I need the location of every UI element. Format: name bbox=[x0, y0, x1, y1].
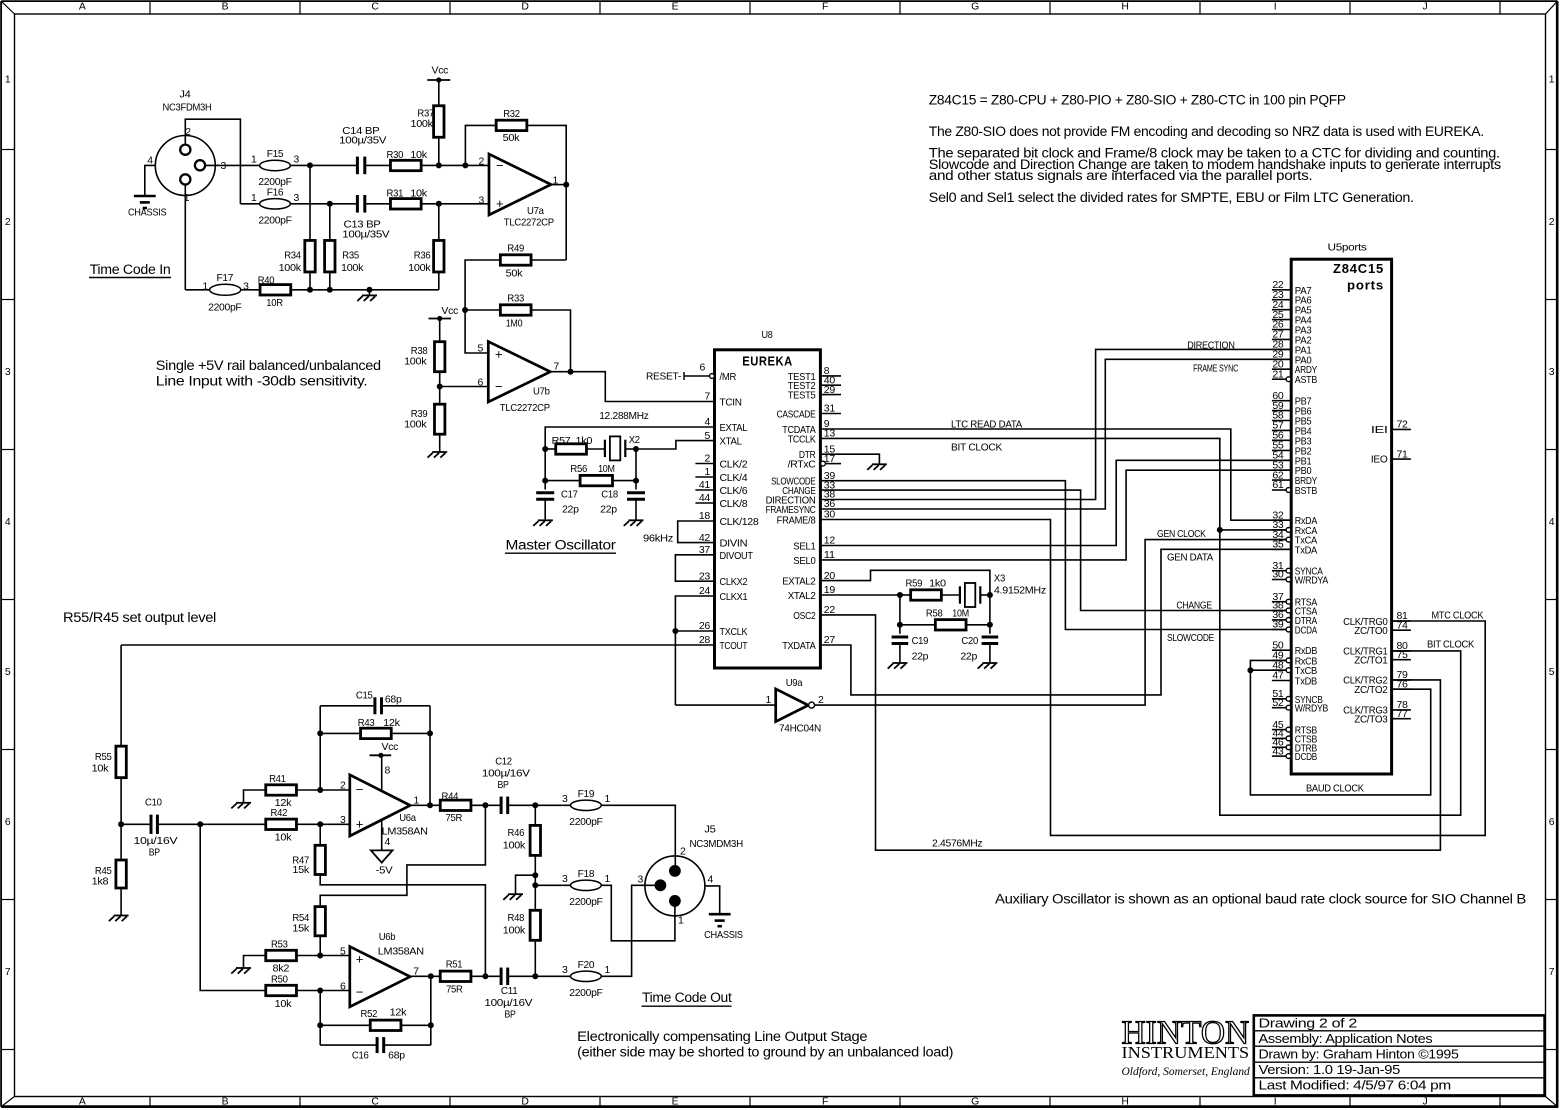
svg-text:1: 1 bbox=[203, 281, 209, 292]
svg-text:/RTxC: /RTxC bbox=[788, 460, 817, 471]
svg-text:+: + bbox=[356, 952, 363, 967]
bubble U9a output bbox=[809, 702, 815, 708]
bubble on /RTxC pin 17 bbox=[821, 461, 826, 466]
wire R32 to U7a output bbox=[527, 125, 566, 184]
EUREKA left pin stubs CLK group bbox=[695, 463, 714, 465]
svg-text:F20: F20 bbox=[578, 960, 595, 971]
wire C17 stem bbox=[544, 481, 546, 490]
svg-text:FRAME/8: FRAME/8 bbox=[777, 516, 816, 527]
wire J5 pin4 to chassis bbox=[705, 886, 720, 914]
wire J4 pin1 down to F17 bbox=[184, 185, 186, 290]
wire U6b output to R51 bbox=[410, 975, 440, 977]
resistor R50 10k bbox=[266, 985, 297, 995]
node dot R35 top on F16 line bbox=[327, 201, 333, 207]
crystal X3 4.9152MHz bbox=[965, 583, 975, 607]
wire SLOWCODE to DCDA bbox=[820, 481, 1286, 630]
svg-text:R30: R30 bbox=[387, 150, 404, 161]
svg-text:2: 2 bbox=[340, 781, 346, 792]
svg-text:X2: X2 bbox=[629, 435, 641, 446]
svg-text:100µ/16V: 100µ/16V bbox=[482, 768, 530, 779]
svg-text:10k: 10k bbox=[275, 833, 293, 844]
resistor R56 10M bbox=[580, 475, 612, 485]
wire R34 bottom bbox=[309, 272, 311, 290]
svg-text:50k: 50k bbox=[503, 133, 521, 144]
svg-text:TLC2272CP: TLC2272CP bbox=[500, 403, 550, 414]
svg-text:75R: 75R bbox=[446, 813, 463, 824]
svg-text:R45: R45 bbox=[95, 866, 112, 877]
svg-text:100k: 100k bbox=[279, 263, 302, 274]
wire C18 stem bbox=[635, 481, 637, 490]
svg-text:D: D bbox=[521, 1096, 528, 1107]
svg-text:+: + bbox=[496, 196, 503, 211]
wire FRAME/8 to CLK/TRG0 MTC CLOCK bbox=[820, 520, 1485, 836]
svg-text:5: 5 bbox=[705, 431, 711, 442]
wire R54 cross-feed from C12 node bbox=[320, 805, 485, 906]
svg-text:61: 61 bbox=[1272, 480, 1284, 491]
svg-text:R49: R49 bbox=[507, 244, 524, 255]
chassis ground at J5 bbox=[709, 913, 731, 916]
node dot ground tap bbox=[367, 287, 373, 293]
svg-text:2: 2 bbox=[479, 157, 485, 168]
svg-text:R34: R34 bbox=[284, 250, 301, 261]
svg-text:6: 6 bbox=[700, 363, 706, 374]
svg-text:R55/R45 set output level: R55/R45 set output level bbox=[63, 610, 216, 625]
svg-text:22p: 22p bbox=[960, 652, 977, 663]
wire DTR to ground bbox=[820, 454, 879, 464]
Vcc symbol above R37 bbox=[427, 79, 450, 81]
Z84C15 left pins bbox=[1272, 289, 1291, 291]
svg-text:DIVOUT: DIVOUT bbox=[720, 551, 754, 562]
resistor R43 12k bbox=[361, 728, 392, 738]
signal ground below R39 bbox=[432, 451, 447, 453]
svg-text:+: + bbox=[495, 347, 502, 362]
wire CHANGE to CTSA bbox=[820, 490, 1286, 610]
svg-text:BIT CLOCK: BIT CLOCK bbox=[951, 443, 1002, 454]
resistor R52 12k bbox=[370, 1020, 401, 1030]
wire TxCB branch bbox=[1250, 669, 1286, 671]
svg-text:BP: BP bbox=[505, 1009, 516, 1020]
svg-text:SEL0: SEL0 bbox=[793, 556, 816, 567]
capacitor C18 22p bbox=[627, 491, 645, 494]
svg-text:Time Code In: Time Code In bbox=[90, 262, 171, 277]
signal ground below C17 bbox=[538, 519, 553, 521]
svg-text:1: 1 bbox=[766, 695, 772, 706]
node dot feedback on minus input bbox=[317, 787, 323, 793]
wire R47 top bbox=[319, 824, 321, 845]
svg-text:2200pF: 2200pF bbox=[208, 303, 241, 314]
capacitor C10 10u/16V BP bbox=[150, 815, 153, 834]
svg-text:R57: R57 bbox=[552, 436, 571, 447]
svg-text:21: 21 bbox=[1272, 369, 1284, 380]
capacitor C17 22p bbox=[536, 491, 554, 494]
resistor R37 100k bbox=[434, 106, 444, 138]
signal ground below C18 bbox=[629, 519, 644, 521]
svg-text:10R: 10R bbox=[266, 298, 283, 309]
svg-text:77: 77 bbox=[1397, 709, 1409, 720]
svg-text:LTC READ DATA: LTC READ DATA bbox=[951, 419, 1022, 430]
Z84C15 right pin IEI bbox=[1392, 428, 1411, 430]
svg-text:100k: 100k bbox=[503, 840, 526, 851]
svg-text:100k: 100k bbox=[411, 119, 434, 130]
wire GEN DATA TXDATA to TxDA bbox=[820, 549, 1291, 695]
svg-text:R41: R41 bbox=[269, 774, 286, 785]
wire R35 top bbox=[329, 204, 331, 241]
svg-text:J: J bbox=[1423, 1096, 1428, 1107]
svg-text:R31: R31 bbox=[387, 189, 404, 200]
chassis ground at J4 bbox=[134, 195, 156, 198]
node dot TxCB junction bbox=[1247, 667, 1253, 673]
svg-text:Sel0 and Sel1 select the divid: Sel0 and Sel1 select the divided rates f… bbox=[929, 190, 1414, 205]
wire XTAL jog bbox=[636, 441, 715, 449]
wire C19 stem bbox=[899, 625, 901, 634]
svg-text:CASCADE: CASCADE bbox=[777, 410, 816, 421]
resistor R48 100k bbox=[530, 910, 540, 940]
svg-text:74: 74 bbox=[1397, 620, 1409, 631]
wire R30 to U7a inverting input bbox=[421, 164, 489, 166]
svg-text:EUREKA: EUREKA bbox=[742, 355, 793, 369]
svg-text:C15: C15 bbox=[356, 690, 373, 701]
wire R42 to U6a plus bbox=[296, 823, 350, 825]
svg-text:Z84C15: Z84C15 bbox=[1333, 261, 1384, 276]
svg-text:3: 3 bbox=[1549, 367, 1555, 378]
Z84C15 right CTC pins bbox=[1392, 620, 1411, 622]
svg-text:Vcc: Vcc bbox=[432, 66, 449, 77]
svg-text:10k: 10k bbox=[410, 189, 428, 200]
resistor R55 10k bbox=[116, 746, 126, 778]
svg-text:8k2: 8k2 bbox=[273, 964, 290, 975]
svg-text:/MR: /MR bbox=[720, 372, 737, 383]
svg-text:12k: 12k bbox=[275, 798, 293, 809]
svg-text:3: 3 bbox=[294, 193, 300, 204]
op-amp U7b TLC2272CP bbox=[488, 342, 550, 403]
filter F20 2200pF bbox=[571, 971, 602, 981]
svg-text:68p: 68p bbox=[385, 694, 402, 705]
svg-text:C19: C19 bbox=[912, 636, 929, 647]
node dot U7a output bbox=[563, 182, 569, 188]
svg-text:C17: C17 bbox=[561, 489, 578, 500]
IC U5 Z84C15 ports box bbox=[1291, 259, 1391, 774]
svg-text:R38: R38 bbox=[411, 346, 428, 357]
svg-text:C18: C18 bbox=[601, 489, 618, 500]
svg-text:J5: J5 bbox=[704, 825, 716, 836]
svg-text:BIT CLOCK: BIT CLOCK bbox=[1427, 639, 1474, 650]
wire C16 left lead bbox=[320, 1044, 377, 1046]
svg-text:R54: R54 bbox=[292, 913, 309, 924]
resistor R46 100k bbox=[530, 825, 540, 855]
wire C16 right lead bbox=[384, 1044, 431, 1046]
svg-text:Time Code Out: Time Code Out bbox=[642, 990, 732, 1005]
svg-text:R59: R59 bbox=[906, 578, 923, 589]
svg-text:4.9152MHz: 4.9152MHz bbox=[994, 586, 1046, 597]
svg-text:U6a: U6a bbox=[399, 813, 416, 824]
capacitor C12 100u/16V BP bbox=[500, 797, 503, 815]
connector J4 XLR bbox=[155, 136, 215, 196]
title block box bbox=[1254, 1015, 1545, 1095]
node dot R46 ground tap bbox=[532, 872, 538, 878]
wire BIT CLOCK TCCLK to RxCA and CLK/TRG1 bbox=[820, 438, 1460, 815]
resistor R30 10k bbox=[390, 160, 421, 170]
wire U9a input bbox=[675, 704, 775, 706]
node dot BIT CLOCK RxCA branch bbox=[1217, 527, 1223, 533]
svg-text:The Z80-SIO does not provide F: The Z80-SIO does not provide FM encoding… bbox=[929, 124, 1484, 139]
node dot R58 right bbox=[987, 622, 993, 628]
wire C10 node down to R50 bbox=[200, 824, 266, 990]
svg-text:R44: R44 bbox=[442, 792, 459, 803]
wire /RTxC stub bbox=[826, 463, 841, 465]
node dot R37 bottom bbox=[436, 162, 442, 168]
wire R53 ground leg bbox=[244, 956, 266, 969]
wire X2 to right node bbox=[625, 448, 636, 450]
svg-text:74HC04N: 74HC04N bbox=[779, 724, 821, 735]
wire R50 to U6b minus bbox=[296, 990, 350, 992]
svg-text:FRAMESYNC: FRAMESYNC bbox=[766, 505, 817, 516]
svg-text:U5ports: U5ports bbox=[1328, 243, 1367, 254]
wire EXTAL to oscillator bbox=[545, 427, 714, 449]
wire F18 to J5 pin1 bbox=[601, 885, 675, 941]
wire R48 bottom bbox=[534, 940, 536, 976]
svg-text:F19: F19 bbox=[578, 789, 595, 800]
svg-text:2200pF: 2200pF bbox=[569, 988, 602, 999]
op-amp U6b LM358AN bbox=[350, 947, 410, 1007]
svg-text:100k: 100k bbox=[341, 263, 364, 274]
svg-text:EXTAL2: EXTAL2 bbox=[782, 577, 816, 588]
wire C20 to ground bbox=[989, 644, 991, 664]
svg-text:100k: 100k bbox=[404, 420, 427, 431]
wire feedback right vertical bbox=[429, 706, 431, 806]
wire R58 leads bbox=[900, 624, 936, 626]
resistor R41 12k bbox=[266, 785, 297, 795]
svg-text:5: 5 bbox=[1549, 667, 1555, 678]
wire ground branch at R46 bbox=[516, 875, 536, 894]
svg-text:DIVIN: DIVIN bbox=[720, 539, 748, 550]
svg-text:TCCLK: TCCLK bbox=[788, 434, 816, 445]
svg-text:3: 3 bbox=[562, 874, 568, 885]
svg-text:Drawing 2 of 2: Drawing 2 of 2 bbox=[1259, 1015, 1357, 1030]
wire U6b feedback left vertical bbox=[319, 991, 321, 1046]
svg-text:3: 3 bbox=[5, 367, 11, 378]
wire F20 to J5 pin3 bbox=[601, 885, 655, 976]
svg-text:FRAME SYNC: FRAME SYNC bbox=[1193, 363, 1239, 374]
svg-text:Last Modified: 4/5/97 6:04 pm: Last Modified: 4/5/97 6:04 pm bbox=[1259, 1078, 1451, 1093]
crystal X2 12.288MHz bbox=[610, 436, 620, 460]
svg-text:100k: 100k bbox=[408, 263, 431, 274]
signal ground below R45 bbox=[114, 915, 129, 917]
resistor R36 100k bbox=[434, 240, 444, 272]
svg-text:39: 39 bbox=[1272, 620, 1284, 631]
wire U7a output bbox=[551, 184, 566, 186]
svg-text:22p: 22p bbox=[562, 505, 579, 516]
svg-text:3: 3 bbox=[221, 161, 227, 172]
resistor R45 1k8 bbox=[116, 860, 126, 888]
svg-text:R48: R48 bbox=[508, 913, 525, 924]
wire RxCA branch bbox=[1220, 529, 1286, 531]
wire R52 leads bbox=[320, 1024, 370, 1026]
wire F17 to R40 bbox=[241, 289, 260, 291]
svg-text:SLOWCODE: SLOWCODE bbox=[1167, 633, 1214, 644]
resistor R57 1k0 bbox=[556, 444, 587, 454]
svg-text:CLK/128: CLK/128 bbox=[720, 517, 759, 528]
svg-text:U7a: U7a bbox=[527, 206, 544, 217]
op-amp U7a TLC2272CP bbox=[489, 154, 551, 215]
svg-text:A: A bbox=[79, 2, 86, 13]
node dot R34 bottom bbox=[307, 287, 313, 293]
wire U6a output to R44 bbox=[410, 804, 440, 806]
svg-text:MTC CLOCK: MTC CLOCK bbox=[1432, 610, 1484, 621]
node dot R56 left bbox=[542, 478, 548, 484]
filter F19 2200pF bbox=[571, 800, 602, 810]
svg-text:1: 1 bbox=[678, 916, 684, 927]
svg-text:12.288MHz: 12.288MHz bbox=[599, 411, 649, 422]
svg-text:Auxiliary Oscillator is shown: Auxiliary Oscillator is shown as an opti… bbox=[995, 892, 1526, 907]
svg-text:G: G bbox=[971, 1096, 979, 1107]
signal ground at R41 bbox=[236, 802, 251, 804]
svg-text:52: 52 bbox=[1272, 698, 1284, 709]
wire ground stub bbox=[369, 290, 371, 296]
svg-text:J: J bbox=[1423, 2, 1428, 13]
drawing border frame bbox=[1, 0, 1557, 2]
wire RESET to /MR bbox=[684, 375, 709, 377]
wire C17 to ground bbox=[544, 499, 546, 520]
svg-text:ZC/TO0: ZC/TO0 bbox=[1354, 626, 1388, 637]
Vcc symbol for R38 divider bbox=[429, 318, 452, 320]
svg-text:10k: 10k bbox=[275, 999, 293, 1010]
resistor R34 100k bbox=[305, 240, 315, 272]
svg-text:E: E bbox=[672, 1096, 679, 1107]
svg-text:U7b: U7b bbox=[533, 387, 550, 398]
wire BAUD CLOCK loop RxCB TxCB to ZC/TO2 bbox=[1250, 660, 1430, 795]
resistor R51 75R bbox=[440, 971, 471, 981]
wire R44 to C12 bbox=[471, 804, 501, 806]
wire U7b output to EUREKA TCIN bbox=[550, 372, 714, 402]
resistor R58 10M bbox=[935, 620, 966, 630]
svg-text:96kHz: 96kHz bbox=[643, 533, 673, 544]
svg-text:R40: R40 bbox=[258, 276, 275, 287]
node dot R47 top junction bbox=[317, 821, 323, 827]
svg-text:R37: R37 bbox=[417, 109, 434, 120]
svg-text:LM358AN: LM358AN bbox=[378, 947, 424, 958]
svg-text:NC3MDM3H: NC3MDM3H bbox=[690, 839, 743, 850]
svg-text:B: B bbox=[222, 2, 229, 13]
svg-text:TLC2272CP: TLC2272CP bbox=[504, 218, 554, 229]
svg-text:100k: 100k bbox=[404, 357, 427, 368]
svg-text:R46: R46 bbox=[508, 828, 525, 839]
svg-text:R52: R52 bbox=[361, 1009, 378, 1020]
svg-text:1: 1 bbox=[605, 794, 611, 805]
svg-text:F17: F17 bbox=[217, 273, 234, 284]
resistor R39 100k bbox=[435, 404, 445, 434]
svg-text:4: 4 bbox=[385, 837, 391, 848]
wire SEL0 to PB0 bbox=[820, 470, 1291, 560]
capacitor C19 22p bbox=[892, 635, 909, 638]
svg-text:U6b: U6b bbox=[379, 932, 396, 943]
node dot F18 node bbox=[532, 882, 538, 888]
wire R47 bottom cross-feed to C11 node bbox=[320, 875, 485, 976]
capacitor C11 100u/16V BP bbox=[500, 968, 503, 986]
svg-text:7: 7 bbox=[554, 362, 560, 373]
svg-text:J4: J4 bbox=[179, 90, 191, 101]
svg-text:10µ/16V: 10µ/16V bbox=[134, 836, 178, 847]
svg-text:RESET-: RESET- bbox=[646, 372, 681, 383]
resistor R54 15k bbox=[315, 907, 325, 936]
wire U7a output down to R49 bbox=[565, 185, 567, 260]
signal ground below C19 bbox=[892, 662, 907, 664]
node dot TXCLK bbox=[672, 628, 678, 634]
svg-text:1k8: 1k8 bbox=[92, 877, 109, 888]
svg-text:C12: C12 bbox=[495, 757, 512, 768]
bubble on /MR pin 6 bbox=[710, 374, 715, 379]
svg-text:BAUD CLOCK: BAUD CLOCK bbox=[1306, 784, 1364, 795]
svg-text:G: G bbox=[971, 2, 979, 13]
svg-text:W/RDYA: W/RDYA bbox=[1295, 576, 1329, 587]
node dot R43 left bbox=[317, 730, 323, 736]
svg-text:ports: ports bbox=[1347, 278, 1384, 293]
resistor R31 10k bbox=[390, 199, 421, 209]
svg-text:7: 7 bbox=[705, 392, 711, 403]
node dot U6b output bbox=[428, 973, 434, 979]
svg-text:DIRECTION: DIRECTION bbox=[1187, 340, 1234, 351]
svg-text:R33: R33 bbox=[507, 294, 524, 305]
wire R39 to ground bbox=[439, 434, 441, 452]
svg-text:U9a: U9a bbox=[786, 678, 803, 689]
svg-text:Assembly: Application Notes: Assembly: Application Notes bbox=[1259, 1031, 1434, 1046]
signal ground at input rail bbox=[362, 294, 377, 296]
svg-text:W/RDYB: W/RDYB bbox=[1295, 704, 1329, 715]
wire X3 right node down bbox=[989, 595, 991, 625]
node dot after R51 bbox=[482, 973, 488, 979]
svg-text:CLK/2: CLK/2 bbox=[720, 460, 748, 471]
node dot U7b output bbox=[568, 369, 574, 375]
svg-text:10k: 10k bbox=[92, 763, 110, 774]
svg-text:DCDA: DCDA bbox=[1295, 626, 1317, 637]
svg-text:2: 2 bbox=[1549, 217, 1555, 228]
wire R36 top bbox=[438, 204, 440, 241]
svg-text:15k: 15k bbox=[292, 865, 310, 876]
svg-text:6: 6 bbox=[340, 982, 346, 993]
wire R55 node to C10 bbox=[121, 823, 151, 825]
svg-text:2.4576MHz: 2.4576MHz bbox=[932, 839, 982, 850]
svg-text:CLK/6: CLK/6 bbox=[720, 486, 748, 497]
node dot R52 left bbox=[317, 1022, 323, 1028]
svg-text:1: 1 bbox=[5, 74, 11, 85]
svg-text:2200pF: 2200pF bbox=[569, 897, 602, 908]
node dot R54 bottom junction bbox=[317, 953, 323, 959]
svg-text:6: 6 bbox=[5, 817, 11, 828]
svg-text:30: 30 bbox=[1272, 570, 1284, 581]
svg-text:CHANGE: CHANGE bbox=[1176, 601, 1212, 612]
svg-text:R51: R51 bbox=[446, 959, 463, 970]
svg-text:CHASSIS: CHASSIS bbox=[704, 930, 743, 941]
wire C15 right lead bbox=[382, 705, 431, 707]
svg-text:22p: 22p bbox=[912, 652, 929, 663]
svg-text:Master Oscillator: Master Oscillator bbox=[506, 538, 617, 553]
signal ground at R53 bbox=[236, 967, 251, 969]
svg-text:GEN CLOCK: GEN CLOCK bbox=[1157, 529, 1206, 540]
resistor R53 8k2 bbox=[266, 950, 297, 960]
wire J4 pin2 to F16 bbox=[185, 119, 240, 204]
wire SEL1 to PB1 bbox=[820, 460, 1291, 545]
resistor R49 50k bbox=[500, 255, 531, 265]
svg-text:F: F bbox=[822, 2, 828, 13]
svg-text:-5V: -5V bbox=[376, 865, 393, 876]
wire EXTAL2 jog to X3 right node bbox=[820, 570, 990, 595]
svg-text:2200pF: 2200pF bbox=[569, 817, 602, 828]
node dot R55 R45 C10 bbox=[118, 821, 124, 827]
svg-text:R55: R55 bbox=[95, 752, 112, 763]
filter F15 2200pF bbox=[260, 160, 291, 170]
wire R33 left bbox=[465, 309, 500, 311]
node dot feedback at output bbox=[427, 802, 433, 808]
resistor R47 15k bbox=[315, 845, 325, 874]
